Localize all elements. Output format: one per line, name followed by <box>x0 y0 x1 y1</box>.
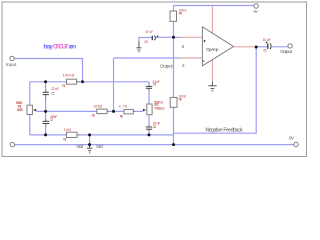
svg-text:C6: C6 <box>263 48 266 52</box>
svg-text:22 nF: 22 nF <box>51 87 59 91</box>
svg-text:.com: .com <box>69 44 77 50</box>
svg-text:10 KΩ: 10 KΩ <box>93 105 102 109</box>
svg-text:Gnd: Gnd <box>96 144 103 149</box>
svg-text:3: 3 <box>182 44 185 49</box>
svg-text:CIRCUIT: CIRCUIT <box>53 44 69 50</box>
svg-text:C1: C1 <box>51 91 54 95</box>
svg-text:4.7K: 4.7K <box>119 105 128 109</box>
svg-text:100 KΩ: 100 KΩ <box>63 74 75 78</box>
svg-text:R3: R3 <box>92 114 95 118</box>
svg-text:Output: Output <box>160 63 173 68</box>
svg-text:10 uF: 10 uF <box>263 38 271 42</box>
svg-text:TREBLE: TREBLE <box>154 107 165 111</box>
svg-text:1 KΩ: 1 KΩ <box>64 128 72 132</box>
svg-text:Negative Feedback: Negative Feedback <box>206 127 244 133</box>
svg-text:R1: R1 <box>62 84 65 88</box>
svg-text:2: 2 <box>182 63 185 68</box>
svg-text:R6: R6 <box>120 115 123 119</box>
svg-text:C4: C4 <box>153 125 156 129</box>
svg-text:C3: C3 <box>153 83 156 87</box>
svg-text:R4: R4 <box>179 12 182 16</box>
svg-text:C2: C2 <box>50 118 53 122</box>
svg-text:47 uF: 47 uF <box>145 30 153 34</box>
svg-text:BASS: BASS <box>17 108 23 112</box>
svg-text:C5: C5 <box>144 40 147 44</box>
svg-text:Gnd: Gnd <box>76 144 83 149</box>
svg-text:Op-Amp: Op-Amp <box>206 47 219 52</box>
svg-text:Output: Output <box>280 49 293 54</box>
svg-text:R5: R5 <box>179 97 182 101</box>
svg-text:R2: R2 <box>63 138 66 142</box>
svg-text:Input: Input <box>6 62 18 67</box>
